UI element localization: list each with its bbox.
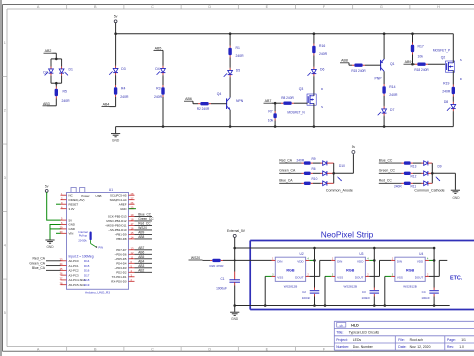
svg-text:A1-PC1: A1-PC1 xyxy=(69,264,80,268)
svg-text:D: D xyxy=(208,5,211,9)
svg-text:1/1: 1/1 xyxy=(461,338,466,342)
svg-text:GND: GND xyxy=(112,139,120,143)
svg-text:AB2: AB2 xyxy=(138,269,144,273)
svg-text:File:: File: xyxy=(398,338,404,342)
svg-text:R20 470R: R20 470R xyxy=(210,264,225,268)
svg-text:Title:: Title: xyxy=(336,331,343,335)
svg-text:D4: D4 xyxy=(155,67,159,71)
svg-text:Q2: Q2 xyxy=(441,55,446,59)
svg-text:GND: GND xyxy=(46,245,54,249)
svg-text:D: D xyxy=(208,347,211,351)
svg-text:RESET: RESET xyxy=(69,202,79,206)
svg-text:AB9: AB9 xyxy=(138,231,144,235)
svg-text:U4: U4 xyxy=(419,252,423,256)
svg-text:100nF: 100nF xyxy=(421,296,430,300)
svg-text:VSS: VSS xyxy=(337,276,343,280)
svg-text:PD7-D7: PD7-D7 xyxy=(116,248,127,252)
svg-text:Input Z ≈ 100Meg: Input Z ≈ 100Meg xyxy=(69,254,94,258)
svg-text:5v: 5v xyxy=(45,185,49,189)
svg-text:DOUT: DOUT xyxy=(295,276,304,280)
svg-text:R2 240R: R2 240R xyxy=(197,107,210,111)
svg-text:A3-PC3: A3-PC3 xyxy=(69,273,80,277)
svg-text:Blue_CC: Blue_CC xyxy=(138,213,151,217)
svg-text:240R: 240R xyxy=(297,158,305,162)
svg-text:D1: D1 xyxy=(69,68,73,72)
svg-text:R9: R9 xyxy=(312,157,316,161)
svg-text:WS20: WS20 xyxy=(191,256,200,260)
svg-text:cb: cb xyxy=(340,323,343,327)
svg-text:R14: R14 xyxy=(389,85,395,89)
svg-text:E: E xyxy=(266,5,269,9)
svg-text:RGB: RGB xyxy=(286,269,295,273)
svg-text:Root.sch: Root.sch xyxy=(410,338,423,342)
svg-text:R19: R19 xyxy=(443,82,449,86)
svg-text:External_5V: External_5V xyxy=(227,229,246,233)
svg-text:Red_CA: Red_CA xyxy=(33,257,46,261)
svg-text:PD4-D4: PD4-D4 xyxy=(116,262,127,266)
svg-text:AB6: AB6 xyxy=(185,97,192,101)
svg-text:5v: 5v xyxy=(352,145,356,149)
svg-text:PD2-D2: PD2-D2 xyxy=(116,271,127,275)
svg-text:VDD: VDD xyxy=(417,259,424,263)
svg-text:Rev:: Rev: xyxy=(447,345,454,349)
svg-text:Green_CA: Green_CA xyxy=(29,261,45,265)
svg-text:U3: U3 xyxy=(359,252,363,256)
svg-text:Nov. 12, 2020: Nov. 12, 2020 xyxy=(410,345,431,349)
svg-text:SCL|PC5-A5: SCL|PC5-A5 xyxy=(110,193,127,197)
svg-text:D5: D5 xyxy=(236,69,240,73)
svg-text:S: S xyxy=(321,105,323,109)
svg-text:MISO-PB4-D12: MISO-PB4-D12 xyxy=(106,219,126,223)
svg-text:D10: D10 xyxy=(339,164,345,168)
svg-text:240R: 240R xyxy=(62,99,71,103)
svg-text:GND: GND xyxy=(120,207,126,211)
svg-text:Project:: Project: xyxy=(336,338,348,342)
svg-text:2: 2 xyxy=(4,109,6,113)
svg-text:NC: NC xyxy=(69,193,73,197)
svg-text:ETC.: ETC. xyxy=(450,275,463,281)
svg-text:B: B xyxy=(94,347,97,351)
svg-text:100nF: 100nF xyxy=(362,296,371,300)
svg-text:LEDs: LEDs xyxy=(353,338,362,342)
svg-text:DIN: DIN xyxy=(337,259,342,263)
svg-text:AB8: AB8 xyxy=(138,235,144,239)
svg-text:100nF: 100nF xyxy=(302,296,311,300)
svg-text:D6: D6 xyxy=(320,68,324,72)
svg-text:VSS: VSS xyxy=(397,276,403,280)
svg-text:VDD: VDD xyxy=(357,259,364,263)
svg-text:DOUT: DOUT xyxy=(355,276,364,280)
svg-text:WS2812B: WS2812B xyxy=(403,284,417,288)
svg-text:GND: GND xyxy=(69,223,75,227)
svg-text:240R: 240R xyxy=(236,54,245,58)
svg-text:Pull-up: Pull-up xyxy=(79,233,88,237)
svg-text:S: S xyxy=(460,58,462,62)
svg-text:Typical LED Circuits: Typical LED Circuits xyxy=(349,331,380,335)
svg-text:R10: R10 xyxy=(312,177,318,181)
svg-text:R6: R6 xyxy=(312,167,316,171)
svg-text:R8 240R: R8 240R xyxy=(281,96,294,100)
svg-text:Date:: Date: xyxy=(398,345,406,349)
svg-text:NPN: NPN xyxy=(236,99,244,103)
svg-text:10k: 10k xyxy=(418,55,424,59)
svg-text:TX-PD1-D1: TX-PD1-D1 xyxy=(112,275,127,279)
svg-text:D8: D8 xyxy=(444,100,448,104)
svg-text:AB2: AB2 xyxy=(45,49,52,53)
svg-text:VIN: VIN xyxy=(69,232,74,236)
svg-text:R16: R16 xyxy=(319,44,325,48)
svg-text:RX-PD0-D0: RX-PD0-D0 xyxy=(111,280,127,284)
svg-text:R4: R4 xyxy=(121,86,125,90)
svg-text:Red_CC: Red_CC xyxy=(138,222,151,226)
svg-text:R1: R1 xyxy=(236,46,240,50)
svg-text:R3: R3 xyxy=(156,86,160,90)
svg-text:WS2812B: WS2812B xyxy=(284,284,298,288)
svg-text:PB0-D8: PB0-D8 xyxy=(116,237,127,241)
svg-text:USB: USB xyxy=(96,194,102,198)
svg-text:5: 5 xyxy=(4,311,6,315)
svg-text:WS2812B: WS2812B xyxy=(343,284,357,288)
svg-text:AB4: AB4 xyxy=(103,102,110,106)
svg-text:D7: D7 xyxy=(390,108,394,112)
svg-text:10k: 10k xyxy=(268,119,274,123)
svg-text:1: 1 xyxy=(4,41,6,45)
svg-text:~PB1-D9: ~PB1-D9 xyxy=(115,233,127,237)
svg-text:R5: R5 xyxy=(63,90,67,94)
svg-text:R15 240R: R15 240R xyxy=(351,69,366,73)
svg-text:D16: D16 xyxy=(84,269,90,273)
svg-text:PIN: PIN xyxy=(98,245,103,249)
svg-text:H: H xyxy=(437,5,440,9)
svg-text:240R: 240R xyxy=(442,90,451,94)
svg-text:Page:: Page: xyxy=(447,338,456,342)
svg-text:B: B xyxy=(94,5,97,9)
svg-text:AB7: AB7 xyxy=(265,99,272,103)
svg-text:4: 4 xyxy=(4,244,6,248)
svg-text:AB8: AB8 xyxy=(341,59,348,63)
svg-text:5V: 5V xyxy=(69,218,73,222)
svg-text:G: G xyxy=(380,5,383,9)
svg-text:Q1: Q1 xyxy=(390,62,395,66)
svg-text:~SS-PB2-D10: ~SS-PB2-D10 xyxy=(108,228,127,232)
svg-text:240R: 240R xyxy=(120,95,129,99)
svg-text:5v: 5v xyxy=(114,14,118,18)
svg-text:Green_CC: Green_CC xyxy=(138,217,154,221)
svg-text:3.3V: 3.3V xyxy=(69,207,75,211)
svg-text:R18 240R: R18 240R xyxy=(414,68,429,72)
svg-text:SCK-PB5-D13: SCK-PB5-D13 xyxy=(108,215,127,219)
svg-text:D9: D9 xyxy=(438,165,442,169)
svg-text:E: E xyxy=(266,347,269,351)
svg-text:C3: C3 xyxy=(362,290,366,294)
svg-text:A2-PC2: A2-PC2 xyxy=(69,269,80,273)
svg-text:240R: 240R xyxy=(389,93,398,97)
svg-text:AB6: AB6 xyxy=(138,251,144,255)
svg-text:Common_Anode: Common_Anode xyxy=(326,189,353,193)
svg-text:Common_Cathode: Common_Cathode xyxy=(414,189,444,193)
svg-text:Q4: Q4 xyxy=(217,92,222,96)
svg-text:D2: D2 xyxy=(43,71,47,75)
svg-text:Blue_CA: Blue_CA xyxy=(32,266,46,270)
svg-text:3: 3 xyxy=(4,176,6,180)
svg-text:20-50k: 20-50k xyxy=(78,238,87,242)
svg-text:IOREF(+5V): IOREF(+5V) xyxy=(69,198,85,202)
svg-text:C: C xyxy=(151,347,154,351)
svg-text:~PD6-D6: ~PD6-D6 xyxy=(115,253,127,257)
svg-text:C1: C1 xyxy=(220,277,224,281)
svg-text:MOSFET_N: MOSFET_N xyxy=(287,111,305,115)
svg-text:Q3: Q3 xyxy=(299,87,304,91)
svg-text:AB3: AB3 xyxy=(138,264,144,268)
svg-text:AREF: AREF xyxy=(119,202,127,206)
svg-text:DOUT: DOUT xyxy=(415,276,424,280)
svg-text:Doc. Number: Doc. Number xyxy=(353,345,374,349)
svg-text:SDA|PC4-A4: SDA|PC4-A4 xyxy=(110,198,127,202)
svg-text:~PD5-D5: ~PD5-D5 xyxy=(115,257,127,261)
svg-text:DIN: DIN xyxy=(277,259,282,263)
svg-text:GND: GND xyxy=(69,227,75,231)
svg-text:MOSFET_P: MOSFET_P xyxy=(433,48,450,52)
svg-text:D19: D19 xyxy=(84,283,90,287)
svg-text:D17: D17 xyxy=(84,273,90,277)
svg-text:~MOSI-PB3-D11: ~MOSI-PB3-D11 xyxy=(105,224,127,228)
svg-text:VDD: VDD xyxy=(297,259,304,263)
svg-text:C2: C2 xyxy=(302,290,306,294)
svg-text:1.0: 1.0 xyxy=(459,345,464,349)
svg-text:AB7: AB7 xyxy=(138,246,144,250)
svg-text:RGB: RGB xyxy=(406,269,415,273)
svg-text:Blue_CC: Blue_CC xyxy=(379,159,393,163)
svg-text:R12: R12 xyxy=(411,175,417,179)
svg-text:NeoPixel Strip: NeoPixel Strip xyxy=(321,230,374,240)
svg-text:U1: U1 xyxy=(109,188,113,192)
svg-text:~PD3-D3: ~PD3-D3 xyxy=(115,266,127,270)
svg-text:D3: D3 xyxy=(121,67,125,71)
svg-text:HLD: HLD xyxy=(351,324,359,328)
svg-text:Red_CC: Red_CC xyxy=(379,179,393,183)
svg-text:C4: C4 xyxy=(422,290,426,294)
svg-text:AB4: AB4 xyxy=(138,260,144,264)
svg-text:A0-PC0: A0-PC0 xyxy=(69,259,80,263)
svg-text:Number:: Number: xyxy=(336,345,349,349)
svg-text:D18: D18 xyxy=(84,278,90,282)
svg-text:WS20: WS20 xyxy=(138,226,147,230)
svg-text:240R: 240R xyxy=(319,52,328,56)
svg-text:AB5: AB5 xyxy=(138,255,144,259)
svg-text:R13: R13 xyxy=(411,164,417,168)
svg-text:DIN: DIN xyxy=(397,259,402,263)
svg-text:240R: 240R xyxy=(394,184,402,188)
svg-text:PNP: PNP xyxy=(375,77,383,81)
svg-text:Red_CA: Red_CA xyxy=(279,159,293,163)
svg-text:GND: GND xyxy=(452,196,460,200)
svg-text:RGB: RGB xyxy=(346,269,355,273)
svg-text:Blue_CA: Blue_CA xyxy=(279,179,293,183)
svg-text:AB5: AB5 xyxy=(155,46,162,50)
svg-text:AB9: AB9 xyxy=(405,60,412,64)
svg-text:R17: R17 xyxy=(418,44,424,48)
svg-text:VSS: VSS xyxy=(277,276,283,280)
svg-text:Arduino_UNO_R3: Arduino_UNO_R3 xyxy=(85,290,110,294)
svg-text:C: C xyxy=(151,5,154,9)
svg-text:D14: D14 xyxy=(84,259,90,263)
svg-text:1000uF: 1000uF xyxy=(216,287,227,291)
svg-text:D15: D15 xyxy=(84,264,90,268)
svg-text:240R: 240R xyxy=(154,95,163,99)
svg-text:GND: GND xyxy=(231,317,239,321)
svg-text:AB3: AB3 xyxy=(43,102,50,106)
svg-text:Green_CC: Green_CC xyxy=(379,169,396,173)
svg-text:U2: U2 xyxy=(300,252,304,256)
svg-text:Green_CA: Green_CA xyxy=(279,169,296,173)
svg-text:R7: R7 xyxy=(268,110,272,114)
